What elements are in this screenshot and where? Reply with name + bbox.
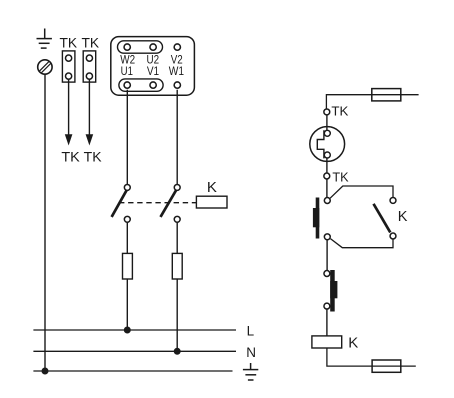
terminal V2 xyxy=(174,44,180,50)
terminal W1 xyxy=(174,82,180,88)
wire: U1 to contact K phase L xyxy=(126,90,128,184)
fuse F2 xyxy=(172,253,182,279)
ground PE (top left) xyxy=(37,29,52,49)
link bar W2-U2 xyxy=(118,41,163,53)
terminal U1 xyxy=(124,82,130,88)
fuse control top xyxy=(372,89,401,101)
contactor contact K (phase L) xyxy=(112,184,131,222)
wire: TK to start button xyxy=(326,179,328,197)
wire: fuse F2 to N bus xyxy=(176,279,178,351)
svg-text:TK: TK xyxy=(84,149,103,165)
ground (PE bus, right end) xyxy=(243,363,258,380)
start pushbutton (NO) xyxy=(313,198,330,240)
mechanical linkage (dashed) xyxy=(119,202,196,204)
contactor contact K (phase N) xyxy=(161,184,181,222)
contactor actuator K box xyxy=(196,196,227,208)
auxiliary contact K xyxy=(374,197,396,239)
wire: fuse F1 to L bus xyxy=(126,279,128,330)
svg-text:TK: TK xyxy=(331,105,349,119)
link bar U1-V1 xyxy=(119,79,163,91)
svg-text:W1: W1 xyxy=(169,64,184,78)
svg-text:K: K xyxy=(348,334,358,351)
motor thermal protector xyxy=(310,127,345,162)
wire: screw terminal down to PE bus xyxy=(44,74,46,371)
bus N xyxy=(33,350,236,352)
terminal block TK right xyxy=(83,51,96,82)
svg-text:TK: TK xyxy=(82,35,100,51)
svg-text:V1: V1 xyxy=(147,64,159,78)
svg-text:TK: TK xyxy=(61,149,80,165)
terminal TK (control, lower) xyxy=(324,173,330,179)
bus PE xyxy=(33,370,232,372)
wire: branch from K aux (bottom) xyxy=(330,239,393,248)
junction on PE xyxy=(42,368,49,375)
svg-text:L: L xyxy=(247,324,255,339)
fuse control bottom xyxy=(372,360,401,372)
svg-text:K: K xyxy=(398,209,408,225)
junction on L xyxy=(124,327,131,334)
wire: control circuit top feed xyxy=(326,95,418,109)
contactor coil K xyxy=(312,336,342,348)
motor terminal box xyxy=(111,37,195,96)
wire: protector to lower TK xyxy=(326,158,328,173)
wire: TK to motor protector xyxy=(326,115,328,130)
screw terminal (PE) xyxy=(37,59,54,76)
svg-text:K: K xyxy=(207,179,217,196)
wire: start button to stop button xyxy=(326,240,328,270)
wire: W1 to contact K phase N xyxy=(176,90,178,184)
svg-text:N: N xyxy=(246,345,256,360)
wire: coil to control bottom fuse xyxy=(327,348,416,366)
wire arrow to TK sensor (right) xyxy=(86,80,94,146)
svg-text:U1: U1 xyxy=(121,64,133,78)
svg-text:TK: TK xyxy=(332,170,349,184)
bus L xyxy=(33,329,236,331)
fuse F1 xyxy=(123,253,133,279)
terminal W2 xyxy=(124,44,130,50)
wire: stop button to coil xyxy=(326,309,328,336)
terminal U2 xyxy=(150,44,156,50)
terminal V1 xyxy=(150,82,156,88)
wire: contact to fuse F2 xyxy=(176,223,178,254)
terminal TK (control, upper) xyxy=(324,109,330,115)
wire: branch to K aux (top) xyxy=(330,186,393,198)
stop pushbutton (NC) xyxy=(324,270,337,312)
junction on N xyxy=(174,348,181,355)
terminal block TK left xyxy=(62,51,75,82)
wire: contact to fuse F1 xyxy=(126,223,128,254)
svg-text:TK: TK xyxy=(60,35,78,51)
wire arrow to TK sensor (left) xyxy=(65,80,73,146)
